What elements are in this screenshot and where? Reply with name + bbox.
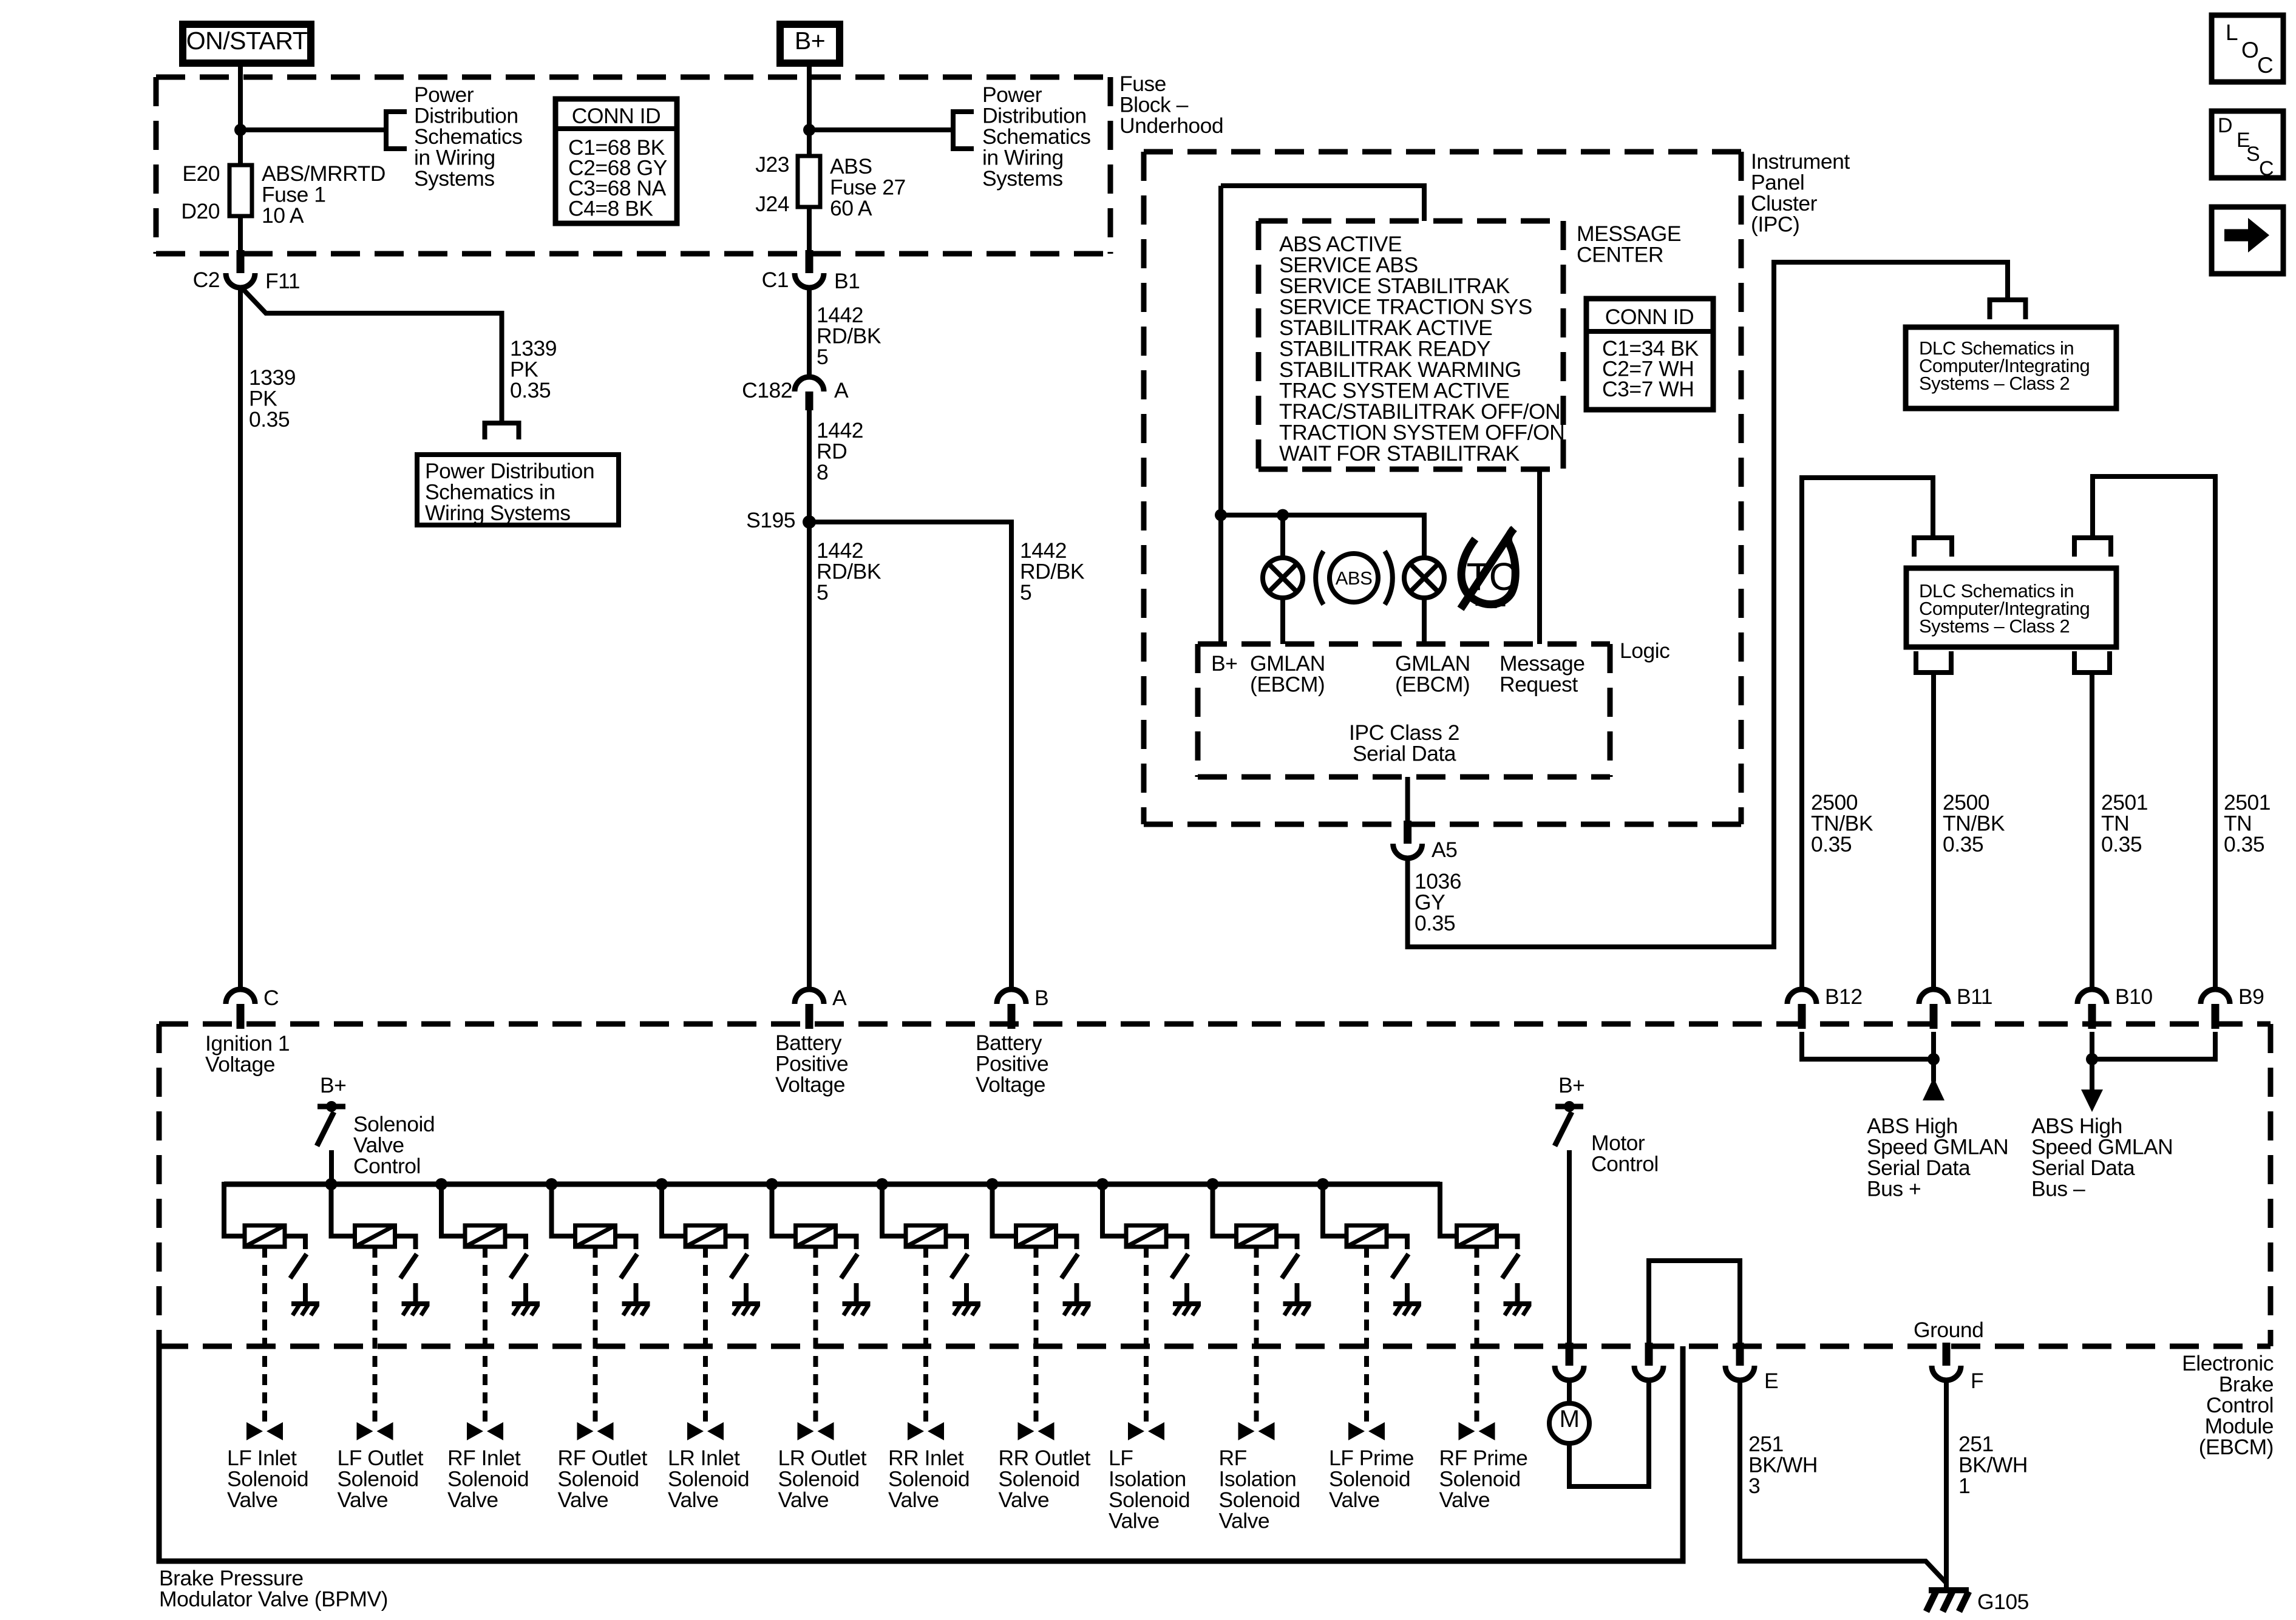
svg-text:(EBCM): (EBCM) [1250,673,1325,697]
svg-text:0.35: 0.35 [1415,911,1455,935]
svg-text:CONN ID: CONN ID [1605,305,1694,329]
wire feed solenoid coil 2 [331,1184,355,1236]
wire lamp branch [1221,515,1424,558]
legend box DESC [2212,111,2283,180]
node dot bus tap 10 [1207,1178,1219,1190]
valve symbol 9 [1128,1422,1164,1440]
wire label 1442 RD 8 [817,418,863,484]
wire switch 5 to ground [744,1283,749,1303]
driver switch blade 8 [1062,1254,1078,1278]
svg-text:Wiring Systems: Wiring Systems [425,501,571,525]
logic dashed boundary [1198,644,1610,777]
wire B9 riser to DLC box 2 [2093,476,2215,989]
valve symbol 8 [1018,1422,1055,1440]
solenoid coil 10 (RF Isolation) [1237,1225,1277,1247]
wire DLC box2 to B11 [1931,673,1936,989]
svg-text:B+: B+ [795,27,825,55]
svg-text:Valve: Valve [558,1488,609,1512]
svg-text:Systems: Systems [982,166,1063,191]
conn id table (fuse block) [555,99,677,223]
wire fuse1 to connector C2 [238,216,243,255]
wire label 2500 TN/BK 0.35 (B11) [1943,790,2005,856]
wire coil 3 to driver switch [505,1236,526,1250]
ground (driver 1) [291,1304,319,1315]
svg-text:Valve: Valve [338,1488,389,1512]
node dot lamp1 feed [1277,509,1289,521]
label Power Distribution Schematics (left) [414,83,522,191]
svg-text:CENTER: CENTER [1577,243,1663,267]
node dot bus tap 8 [987,1178,999,1190]
ground (driver 3) [512,1304,540,1315]
node dot GMLAN bus+ [1927,1053,1940,1065]
label GMLAN EBCM (2) [1395,651,1470,697]
label Motor Control [1558,1073,1659,1176]
wire coil 10 to driver switch [1277,1236,1297,1250]
motor M [1549,1403,1589,1443]
label MESSAGE CENTER [1577,222,1681,267]
connector B (EBCM) [997,986,1048,1029]
ground (driver 6) [843,1304,871,1315]
connector C2 F11 [193,250,300,293]
svg-text:D: D [2218,114,2232,137]
label Battery Positive Voltage (B) [976,1031,1048,1097]
label IPC Class 2 Serial Data [1349,720,1459,766]
svg-text:D20: D20 [181,199,220,223]
pointer bracket Power Distribution (left) [386,112,407,149]
indicator lamp 2 (traction warning) [1404,558,1444,598]
ground (driver 2) [402,1304,430,1315]
wire message request [1537,469,1542,644]
svg-text:J23: J23 [755,152,789,177]
label GMLAN EBCM (1) [1250,651,1325,697]
solenoid coil 7 (RR Inlet Solenoid) [906,1225,946,1247]
solenoid supply bus [224,1182,1440,1187]
wire label 1036 GY 0.35 [1415,869,1461,935]
connector B11 [1919,985,1992,1029]
label valve 2 [338,1446,424,1512]
label Instrument Panel Cluster IPC [1751,149,1850,237]
dashed hydraulic link 9 [1144,1247,1149,1423]
wire branch F11 to power distribution box [242,288,502,423]
label ABS High Speed GMLAN Serial Data Bus - [2031,1114,2173,1201]
wire feed solenoid coil 8 [993,1184,1016,1236]
node dot bus tap 11 [1317,1178,1329,1190]
pointer bracket DLC box2 bottom-left [1916,651,1951,673]
wire switch 8 to ground [1075,1283,1079,1303]
node dot bus tap 4 [546,1178,558,1190]
wire B11 below border [1931,1032,1936,1059]
wire B+ vertical (IPC) [1218,186,1223,644]
wire motor return arch inside EBCM [1649,1261,1740,1344]
svg-text:5: 5 [817,345,828,369]
wire coil 1 to driver switch [285,1236,305,1250]
connector B9 [2201,985,2264,1029]
pointer bracket DLC box 1 [1990,300,2026,319]
dashed hydraulic link 3 [483,1247,487,1423]
wire switch 6 to ground [854,1283,859,1303]
wire coil 9 to driver switch [1166,1236,1187,1250]
svg-text:C: C [2259,157,2274,180]
wire switch 3 to ground [523,1283,528,1303]
fuse ABS/MRRTD Fuse 1 [229,165,252,216]
svg-text:Valve: Valve [1329,1488,1380,1512]
valve symbol 10 [1238,1422,1275,1440]
wire switch 7 to ground [964,1283,969,1303]
node dot bus tap 9 [1096,1178,1109,1190]
connector motor control (EBCM bottom) [1555,1343,1584,1380]
driver switch blade 12 [1503,1254,1519,1278]
svg-text:0.35: 0.35 [510,378,551,402]
valve symbol 7 [908,1422,944,1440]
wire label 251 BK/WH 1 [1958,1432,2028,1498]
valve symbol 1 [246,1422,283,1440]
wire lamp2 to logic [1422,598,1427,644]
svg-text:A: A [832,986,847,1010]
legend box LOC [2212,15,2283,82]
ground (driver 4) [622,1304,650,1315]
valve symbol 5 [687,1422,724,1440]
wire feed solenoid coil 1 [224,1182,245,1236]
wire label 1442 RD/BK 5 (upper) [817,303,881,369]
wire label 2500 TN/BK 0.35 (B12) [1811,790,1873,856]
label Power Distribution Schematics (right) [982,83,1090,191]
pointer bracket to power distribution box [485,423,519,439]
legend box next-page arrow [2212,207,2283,274]
connector B10 [2077,985,2153,1029]
wire fuse27 to connector C1 [807,207,812,255]
valve symbol 2 [357,1422,393,1440]
wire switch 1 to ground [303,1283,308,1303]
svg-text:Logic: Logic [1620,639,1669,663]
svg-text:B1: B1 [834,269,860,293]
wire B10 to B9 junction [2092,1032,2215,1059]
svg-text:B: B [1034,986,1048,1010]
ground (driver 8) [1063,1304,1091,1315]
svg-text:Valve: Valve [447,1488,498,1512]
wire DLC box2 to B10 [2090,673,2094,989]
B+ terminal motor control [1555,1101,1583,1112]
wire label 2501 TN 0.35 (B10) [2101,790,2148,856]
svg-text:A5: A5 [1432,838,1457,862]
svg-text:Underhood: Underhood [1119,114,1223,138]
wire E to G105 [1740,1381,1946,1583]
svg-text:5: 5 [1020,580,1031,605]
label valve 1 [227,1446,308,1512]
pointer bracket DLC box2 top-left [1914,538,1952,557]
label ABS High Speed GMLAN Serial Data Bus + [1867,1114,2008,1201]
connector A5 [1393,821,1458,862]
wire branch to power distribution pointer [240,127,386,132]
wire label 1339 PK 0.35 (branch) [510,336,557,402]
wire switch 10 to ground [1295,1283,1300,1303]
wire 1442 RD 8 (C182 to S195) [807,410,812,522]
wire lamp1 feed [1280,515,1285,558]
power feed box B+ [780,24,840,63]
wire label 1442 RD/BK 5 (left drop) [817,538,881,605]
label valve 7 [888,1446,970,1512]
wire feed solenoid coil 7 [882,1184,906,1236]
wire 1339 PK down to EBCM C [238,288,243,989]
svg-text:5: 5 [817,580,828,605]
driver switch blade 2 [401,1254,417,1278]
solenoid coil 6 (LR Outlet Solenoid) [796,1225,836,1247]
message center dashed boundary [1258,221,1563,469]
svg-text:C182: C182 [742,378,792,402]
wire switch 12 to ground [1515,1283,1520,1303]
svg-text:ABS: ABS [1336,568,1373,589]
svg-text:B+: B+ [1558,1073,1584,1097]
svg-text:Valve: Valve [888,1488,939,1512]
dashed hydraulic link 11 [1364,1247,1369,1423]
message center text list [1279,232,1564,466]
valve symbol 4 [577,1422,614,1440]
svg-text:B11: B11 [1957,985,1992,1009]
label Message Request [1500,651,1585,697]
svg-text:0.35: 0.35 [249,407,290,432]
wire B12 riser to DLC box 2 [1802,478,1933,989]
svg-text:0.35: 0.35 [2101,832,2142,856]
label valve 8 [999,1446,1091,1512]
connector motor return (EBCM bottom) [1634,1343,1663,1380]
wire feed solenoid coil 4 [552,1184,576,1236]
svg-text:Valve: Valve [778,1488,829,1512]
driver switch blade 1 [290,1254,307,1278]
ground G105 [1926,1590,2029,1614]
dashed hydraulic link 12 [1475,1247,1479,1423]
solenoid coil 1 (LF Inlet Solenoid) [245,1225,285,1247]
svg-text:WAIT FOR STABILITRAK: WAIT FOR STABILITRAK [1279,441,1520,466]
svg-text:Serial Data: Serial Data [1353,742,1456,766]
svg-text:Ground: Ground [1914,1318,1983,1342]
svg-text:Bus +: Bus + [1867,1177,1921,1201]
wire IPC class 2 serial data to A5 [1405,777,1410,824]
driver switch blade 9 [1172,1254,1188,1278]
label Brake Pressure Modulator Valve BPMV [159,1566,388,1612]
conn id table (IPC) [1586,299,1713,410]
connector B12 [1787,985,1863,1029]
wire feed solenoid coil 10 [1213,1184,1237,1236]
node dot bus tap 6 [766,1178,778,1190]
svg-text:C3=7 WH: C3=7 WH [1602,377,1694,401]
wire B12 to B11 junction [1802,1032,1934,1059]
ground (driver 5) [732,1304,760,1315]
label Logic [1620,639,1669,663]
wire coil 11 to driver switch [1387,1236,1407,1250]
driver switch blade 4 [621,1254,637,1278]
wire feed solenoid coil 6 [772,1184,796,1236]
svg-text:B+: B+ [1211,651,1237,676]
dashed hydraulic link 7 [923,1247,928,1423]
pin label J24 [755,192,789,216]
svg-text:O: O [2241,38,2258,63]
svg-text:L: L [2226,20,2238,45]
node junction on B+ wire [803,124,815,136]
node dot bus tap 3 [435,1178,447,1190]
wire label 2501 TN 0.35 (B9) [2224,790,2271,856]
pin label E20 [182,161,220,186]
wire switch to bus [329,1150,334,1184]
wire label 1442 RD/BK 5 (right drop) [1020,538,1085,605]
svg-text:B+: B+ [320,1073,346,1097]
label ABS/MRRTD Fuse 1 10 A [262,161,385,228]
svg-text:Control: Control [1591,1152,1659,1176]
svg-text:Valve: Valve [227,1488,278,1512]
fuse ABS Fuse 27 [798,156,820,207]
connector C (EBCM) [226,986,279,1029]
wire connector to motor [1567,1381,1572,1404]
ground (driver 12) [1504,1304,1532,1315]
connector E [1725,1343,1778,1393]
svg-text:Request: Request [1500,673,1578,697]
pointer bracket Power Distribution (right) [953,112,974,149]
label Electronic Brake Control Module EBCM [2182,1351,2274,1459]
svg-text:S: S [2246,143,2260,166]
wire coil 2 to driver switch [395,1236,416,1250]
wire feed solenoid coil 12 [1440,1182,1457,1236]
svg-text:0.35: 0.35 [1943,832,1983,856]
wire coil 12 to driver switch [1497,1236,1518,1250]
solenoid coil 5 (LR Inlet Solenoid) [685,1225,725,1247]
svg-text:60 A: 60 A [830,196,872,220]
label valve 4 [558,1446,648,1512]
wire label 251 BK/WH 3 [1748,1432,1818,1498]
electronic brake control module dashed boundary [159,1024,2271,1346]
svg-text:Systems – Class 2: Systems – Class 2 [1919,373,2070,394]
driver switch blade 10 [1282,1254,1299,1278]
driver switch blade 7 [951,1254,968,1278]
wire switch 4 to ground [634,1283,639,1303]
wire lamp1 to logic [1280,598,1285,644]
wire switch 9 to ground [1184,1283,1189,1303]
ground (driver 9) [1173,1304,1201,1315]
label valve 11 [1329,1446,1414,1512]
svg-text:Voltage: Voltage [775,1073,845,1097]
wire coil 6 to driver switch [836,1236,857,1250]
svg-text:C2: C2 [193,268,220,292]
wire feed solenoid coil 3 [441,1184,465,1236]
fuse block underhood dashed boundary [156,77,1110,254]
svg-text:10 A: 10 A [262,203,304,228]
svg-text:Valve: Valve [1109,1509,1160,1533]
wire A5 to DLC riser [1408,262,2008,947]
svg-text:Valve: Valve [999,1488,1050,1512]
label Battery Positive Voltage (A) [775,1031,848,1097]
solenoid coil 12 (RF Prime Solenoid) [1457,1225,1497,1247]
label ABS Fuse 27 60 A [830,154,906,220]
dashed hydraulic link 2 [373,1247,378,1423]
solenoid coil 8 (RR Outlet Solenoid) [1016,1225,1056,1247]
ABS warning icon [1316,551,1393,605]
dashed hydraulic link 1 [262,1247,267,1423]
svg-text:1: 1 [1958,1474,1970,1498]
label valve 3 [447,1446,529,1512]
svg-text:F11: F11 [265,269,300,293]
wire coil 5 to driver switch [725,1236,746,1250]
wire coil 8 to driver switch [1056,1236,1077,1250]
node dot bus tap 5 [656,1178,668,1190]
svg-text:CONN ID: CONN ID [572,104,661,128]
wire feed solenoid coil 5 [662,1184,685,1236]
wire coil 4 to driver switch [616,1236,636,1250]
switch blade motor control [1555,1112,1572,1146]
svg-text:B9: B9 [2238,985,2264,1009]
wire feed solenoid coil 11 [1323,1184,1347,1236]
wire motor return loop [1569,1381,1649,1486]
connector F [1932,1343,1983,1393]
svg-text:3: 3 [1748,1474,1760,1498]
node dot bus tap 2 [325,1178,338,1190]
svg-text:G105: G105 [1977,1590,2029,1614]
node dot GMLAN bus- [2086,1053,2098,1065]
svg-text:Voltage: Voltage [976,1073,1045,1097]
switch blade solenoid valve control [317,1112,334,1146]
wire label 1339 PK 0.35 (left) [249,365,296,432]
solenoid coil 11 (LF Prime Solenoid) [1347,1225,1387,1247]
svg-text:0.35: 0.35 [1811,832,1852,856]
svg-text:Systems – Class 2: Systems – Class 2 [1919,615,2070,637]
svg-text:(IPC): (IPC) [1751,212,1799,237]
svg-text:B10: B10 [2115,985,2153,1009]
ground (driver 11) [1393,1304,1421,1315]
label Ground [1914,1318,1983,1342]
dashed hydraulic link 5 [703,1247,708,1423]
dashed hydraulic link 10 [1254,1247,1259,1423]
wire switch 2 to ground [413,1283,418,1303]
svg-text:C1: C1 [762,268,789,292]
svg-text:E: E [1764,1369,1778,1393]
connector C1 B1 [762,250,860,293]
label valve 10 [1219,1446,1300,1533]
wire feed solenoid coil 9 [1102,1184,1126,1236]
driver switch blade 5 [731,1254,747,1278]
wire 1442 RD/BK 5 (S195 to A) [807,522,812,989]
svg-text:Valve: Valve [1439,1488,1490,1512]
svg-text:E20: E20 [182,161,220,186]
dashed hydraulic link 8 [1034,1247,1039,1423]
svg-text:Modulator Valve (BPMV): Modulator Valve (BPMV) [159,1587,388,1612]
label Ignition 1 Voltage [205,1031,290,1077]
indicator lamp 1 (brake warning) [1263,558,1303,598]
wire ON/START to fuse E20 [238,67,243,165]
solenoid coil 9 (LF Isolation) [1126,1225,1166,1247]
splice S195 [746,508,816,532]
svg-text:(EBCM): (EBCM) [2199,1435,2274,1459]
svg-text:C4=8 BK: C4=8 BK [568,197,653,221]
wire coil 7 to driver switch [946,1236,966,1250]
dashed hydraulic link 6 [813,1247,818,1423]
wire 1442 RD/BK 5 (C1 to C182) [807,288,812,377]
label valve 12 [1439,1446,1528,1512]
solenoid coil 2 (LF Outlet Solenoid) [355,1225,395,1247]
box Power Distribution Schematics in Wiring Systems [417,455,619,525]
wire B+ to fuse J23 [807,67,812,156]
svg-text:0.35: 0.35 [2224,832,2264,856]
driver switch blade 6 [841,1254,858,1278]
power feed box ON/START [183,24,311,63]
svg-text:B12: B12 [1825,985,1863,1009]
solenoid coil 3 (RF Inlet Solenoid) [465,1225,505,1247]
driver switch blade 11 [1392,1254,1408,1278]
box DLC Schematics 1 [1906,327,2116,408]
valve symbol 6 [798,1422,834,1440]
node dot bus tap 7 [876,1178,888,1190]
svg-text:M: M [1560,1406,1580,1432]
wire F to G105 [1944,1381,1949,1591]
pin label J23 [755,152,789,177]
connector A (EBCM) [795,986,847,1029]
label B+ (logic input) [1211,651,1237,676]
svg-text:8: 8 [817,460,828,484]
